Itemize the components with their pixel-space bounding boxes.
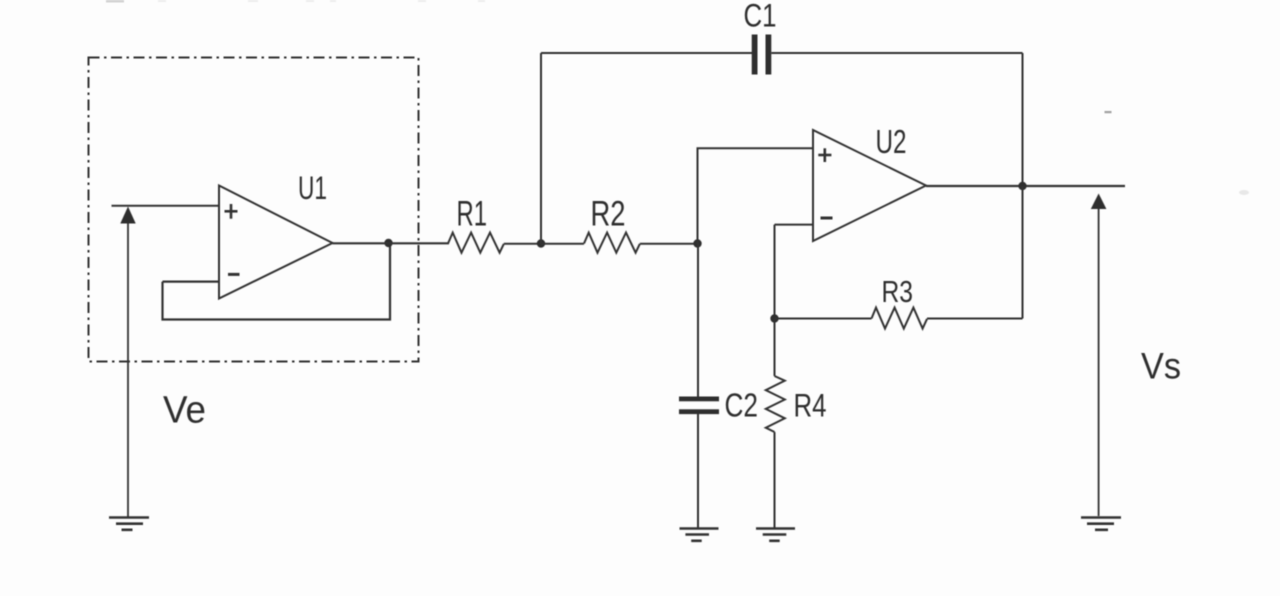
wire U1 output <box>333 242 450 244</box>
wire U1 noninverting input <box>112 205 220 207</box>
resistor R4 <box>766 376 785 432</box>
svg-text:Ve: Ve <box>163 390 206 432</box>
wire output node down to R3 <box>1022 186 1024 319</box>
wire C1 right riser <box>1022 53 1024 186</box>
wire C2 to ground <box>697 414 699 529</box>
svg-text:R3: R3 <box>882 274 914 309</box>
wire U1 inverting input <box>163 281 220 283</box>
scan artifact specks top edge <box>106 0 1249 195</box>
svg-text:U1: U1 <box>298 170 327 206</box>
op-amp U2 <box>813 130 926 241</box>
source arrow Ve <box>120 207 135 517</box>
node R2/C2/U2 junction <box>693 239 701 247</box>
wire U2 noninverting branch <box>698 148 814 244</box>
wire C1 top right <box>771 52 1022 54</box>
wire U1 feedback loop <box>163 242 391 320</box>
ground (Ve) <box>109 518 149 530</box>
U1 plus pin mark <box>225 204 238 219</box>
op-amp U1 <box>219 186 333 299</box>
svg-text:Vs: Vs <box>1141 346 1181 387</box>
ground (C2) <box>680 529 719 541</box>
capacitor C1 <box>752 35 772 75</box>
svg-text:R1: R1 <box>457 195 488 234</box>
node R3/R4 junction <box>770 314 778 322</box>
U2 plus pin mark <box>818 148 831 162</box>
resistor R3 <box>872 308 928 329</box>
wire R2 to node <box>640 243 698 245</box>
wire node to R4 <box>774 319 776 377</box>
wire R4 to ground <box>774 432 776 529</box>
ground (Vs) <box>1081 518 1121 530</box>
wire C1 top left <box>541 52 752 54</box>
wire U2 output <box>926 185 1125 187</box>
capacitor C2 <box>679 397 719 415</box>
wire node to R2 <box>541 243 584 245</box>
wire inverting riser <box>774 225 776 319</box>
svg-text:R4: R4 <box>794 388 827 424</box>
node R1/R2/C1 junction <box>537 239 545 247</box>
resistor R1 <box>448 233 504 253</box>
svg-text:C2: C2 <box>725 387 759 424</box>
wire C1 branch left riser <box>540 53 542 244</box>
wire U2 inverting input <box>775 224 814 226</box>
wire node to R3 <box>775 318 872 320</box>
U1 minus pin mark <box>228 273 240 276</box>
svg-text:R2: R2 <box>591 195 626 234</box>
node U1 output junction <box>384 239 392 247</box>
U2 minus pin mark <box>821 217 833 220</box>
dash-dot box around U1 <box>89 58 419 362</box>
node output/C1/R3 junction <box>1018 182 1026 190</box>
ground (R4) <box>756 529 795 541</box>
wire R3 to output riser <box>927 318 1023 320</box>
wire C2 branch <box>697 244 699 397</box>
source arrow Vs <box>1091 194 1107 517</box>
svg-text:C1: C1 <box>744 0 777 34</box>
resistor R2 <box>584 233 640 253</box>
svg-text:U2: U2 <box>876 123 907 160</box>
wire R1 to node <box>504 243 541 245</box>
